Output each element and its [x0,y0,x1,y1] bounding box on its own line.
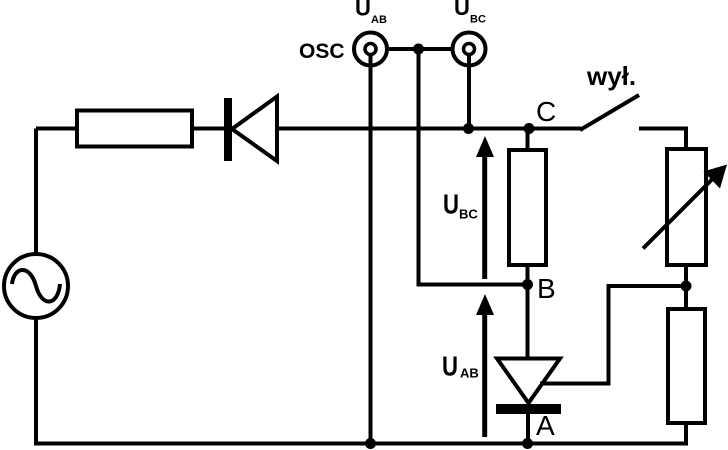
svg-text:OSC: OSC [299,40,345,63]
svg-text:wył.: wył. [586,61,636,91]
svg-text:AB: AB [371,14,387,26]
svg-text:U: U [442,351,458,382]
svg-text:BC: BC [459,207,478,222]
svg-text:U: U [454,0,470,20]
svg-text:BC: BC [470,14,486,26]
svg-text:B: B [537,273,556,304]
svg-text:AB: AB [460,366,479,381]
svg-text:A: A [536,410,555,441]
svg-text:C: C [536,96,556,127]
svg-text:U: U [443,189,459,220]
svg-text:U: U [355,0,371,21]
